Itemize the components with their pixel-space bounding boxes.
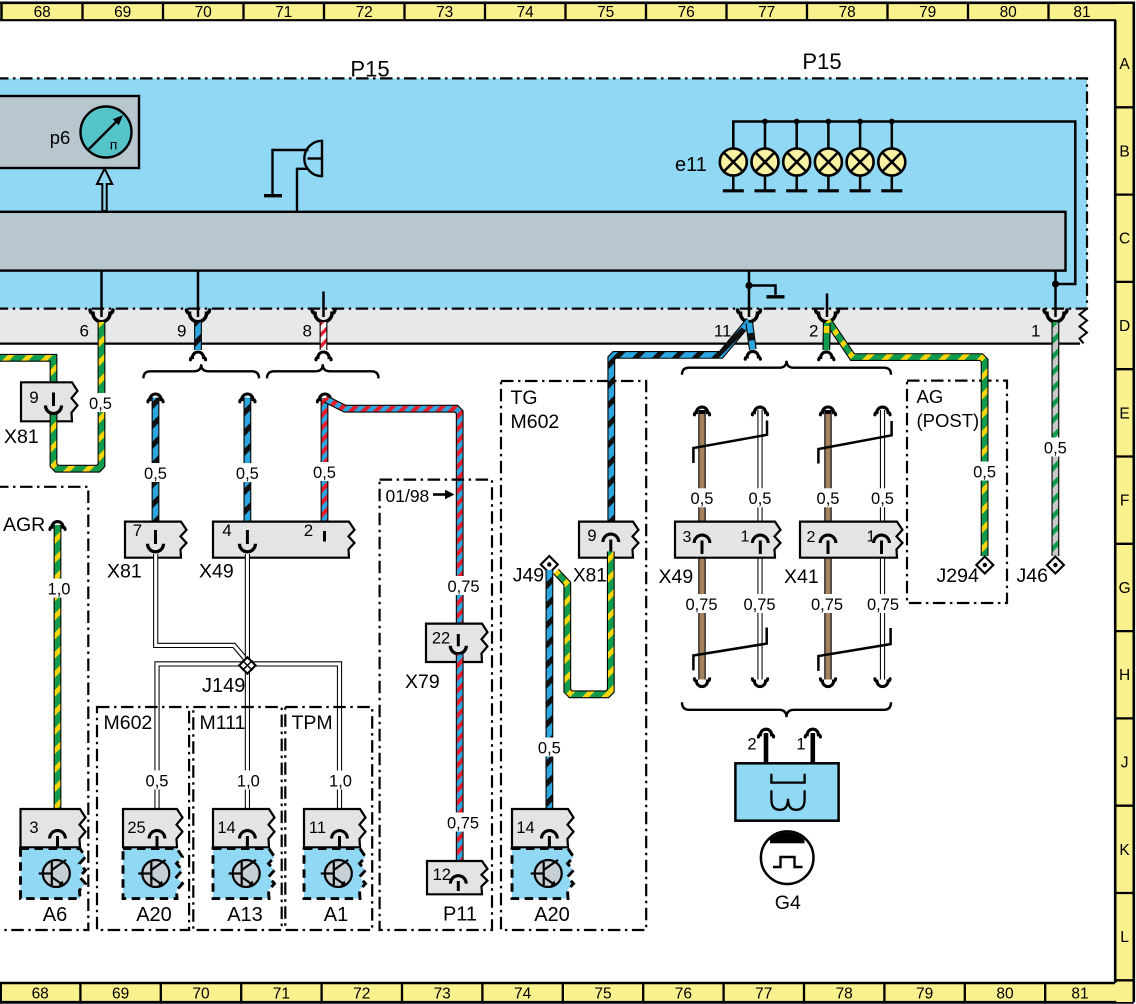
svg-text:AGR: AGR [3, 514, 45, 536]
connector X81 box (pin 7) [125, 522, 187, 558]
wire green/yellow from left edge into X81 pin 9 [0, 358, 54, 393]
svg-text:J46: J46 [1017, 565, 1048, 587]
control unit A1 blue box with transistor [304, 849, 366, 899]
svg-text:0,5: 0,5 [236, 465, 259, 483]
svg-text:L: L [1120, 929, 1129, 946]
svg-text:A13: A13 [227, 904, 263, 926]
svg-text:B: B [1119, 143, 1129, 160]
switch contact upper X41 [818, 421, 891, 464]
wire end cup at top x=882.5 [875, 407, 890, 415]
engine region M602 dash-dot box [97, 707, 189, 930]
svg-text:J149: J149 [202, 675, 245, 697]
stub above pin 8 [322, 292, 325, 318]
svg-text:A1: A1 [324, 904, 348, 926]
svg-text:72: 72 [356, 4, 373, 21]
svg-text:1: 1 [867, 529, 876, 546]
strip connector pin 6 [90, 310, 113, 322]
wire bus to pin 6 [100, 271, 103, 317]
svg-text:A20: A20 [136, 904, 172, 926]
switch contact upper X49 [693, 421, 767, 464]
svg-text:73: 73 [434, 986, 451, 1003]
svg-text:72: 72 [353, 986, 370, 1003]
right ruler band [1115, 2, 1134, 1002]
wire J149 to A20 pin 25 [157, 664, 245, 829]
engine region M111 dash-dot box [193, 707, 281, 930]
svg-text:74: 74 [514, 986, 532, 1003]
gauge module p6 box [0, 96, 139, 168]
control unit A20 connector box pin 14 [512, 809, 574, 847]
svg-text:1: 1 [796, 736, 805, 754]
svg-text:3: 3 [29, 819, 38, 837]
wire J149 to A13 pin 14 [245, 668, 250, 829]
switch contact lower X49 [693, 628, 766, 671]
wire green/yellow X81-9 loop up to strip pin 6 [54, 322, 102, 469]
svg-text:9: 9 [177, 322, 186, 341]
junction sleeve J49 [541, 556, 558, 573]
svg-text:80: 80 [1000, 4, 1018, 21]
svg-text:69: 69 [114, 4, 131, 21]
svg-text:0,5: 0,5 [313, 464, 336, 482]
svg-text:74: 74 [517, 4, 535, 21]
wire blue/black pin 11 to X81 pin 9 (TG) [611, 321, 749, 532]
strip connector pin 8 [312, 310, 335, 322]
wire brown X49 pin 3 column [698, 410, 705, 534]
svg-text:25: 25 [127, 819, 145, 837]
wire size 0,5 [88, 393, 114, 413]
svg-text:D: D [1119, 318, 1130, 335]
svg-text:0,5: 0,5 [871, 490, 894, 508]
svg-text:1: 1 [741, 529, 750, 546]
svg-text:A20: A20 [534, 904, 570, 926]
control unit A6 connector box pin 3 [21, 809, 86, 847]
pin 4 [246, 530, 249, 544]
ground symbol at pin 11 tap [749, 286, 776, 295]
svg-text:(POST): (POST) [917, 410, 980, 431]
svg-text:0,5: 0,5 [89, 395, 112, 413]
svg-text:78: 78 [836, 986, 853, 1003]
svg-text:76: 76 [678, 4, 695, 21]
svg-text:A: A [1119, 56, 1130, 73]
lamp e11.1 [720, 122, 747, 191]
region TG M602 dash-dot box [501, 381, 646, 930]
pin 2 of X49 [323, 531, 326, 542]
pin 7 [154, 530, 157, 544]
wire brown X41 pin 2 column [824, 410, 831, 534]
wire end cup at bottom x=828 [820, 679, 835, 687]
svg-text:4: 4 [222, 521, 231, 540]
svg-text:14: 14 [516, 819, 534, 837]
svg-text:0,75: 0,75 [447, 814, 479, 832]
svg-text:70: 70 [195, 4, 213, 21]
svg-text:TG: TG [511, 387, 538, 409]
lamp e11.6 [878, 122, 905, 191]
svg-text:0,5: 0,5 [817, 490, 840, 508]
svg-text:69: 69 [112, 986, 129, 1003]
solenoid valve pins 2,1 [758, 729, 773, 737]
svg-text:J294: J294 [937, 565, 979, 587]
svg-text:79: 79 [919, 4, 936, 21]
control unit A6 blue box with transistor [21, 849, 86, 899]
svg-text:77: 77 [755, 986, 772, 1003]
svg-text:0,75: 0,75 [685, 596, 717, 614]
svg-text:68: 68 [32, 986, 49, 1003]
top ruler band [0, 2, 1135, 21]
wire end cup at bottom x=882.5 [875, 679, 890, 687]
svg-text:6: 6 [80, 322, 89, 341]
transducer P11 box pin 12 [427, 861, 488, 894]
wire white X41 pin 1 column [880, 410, 885, 534]
control unit A20 connector box pin 25 [123, 809, 183, 847]
svg-text:0,75: 0,75 [811, 596, 843, 614]
wire green/yellow stub end below pin 2 [822, 323, 830, 350]
svg-text:P11: P11 [443, 904, 477, 926]
svg-text:0,5: 0,5 [973, 463, 996, 481]
control region AGR dash-dot box [0, 487, 88, 930]
svg-text:71: 71 [275, 4, 292, 21]
control unit A20 blue box with transistor [512, 849, 574, 899]
svg-text:M111: M111 [200, 712, 246, 734]
stub above pin 2 [826, 294, 829, 318]
svg-text:3: 3 [683, 529, 692, 546]
control unit A1 connector box pin 11 [304, 809, 366, 847]
svg-text:0,5: 0,5 [144, 465, 167, 483]
control unit A20 blue box with transistor [123, 849, 183, 899]
svg-text:14: 14 [217, 819, 235, 837]
svg-text:H: H [1119, 667, 1130, 684]
svg-text:8: 8 [303, 322, 312, 341]
connector X81 (left) box [21, 382, 78, 421]
junction sleeve J46 [1047, 557, 1064, 574]
svg-text:0,5: 0,5 [691, 490, 714, 508]
svg-text:77: 77 [758, 4, 775, 21]
svg-text:0,5: 0,5 [146, 772, 169, 790]
junction sleeve J294 [976, 557, 993, 574]
internal bus bar of P15 [0, 212, 1066, 271]
svg-text:TPM: TPM [292, 712, 333, 734]
svg-text:7: 7 [133, 521, 142, 540]
outline arrow from bus to p6 [97, 169, 112, 212]
control unit A13 blue box with transistor [213, 849, 275, 899]
brace under pin 8 [267, 364, 379, 378]
svg-text:81: 81 [1071, 986, 1088, 1003]
svg-text:78: 78 [839, 4, 856, 21]
svg-text:11: 11 [714, 322, 732, 341]
connector X49 box (pins 3,1) [675, 522, 781, 558]
wire red/white stub below pin 8 [320, 322, 328, 350]
svg-text:0,75: 0,75 [867, 596, 899, 614]
svg-text:68: 68 [34, 4, 51, 21]
wire yellow/green X81-9 loop to J49 [556, 552, 611, 695]
junction sleeve J149 [239, 657, 255, 673]
connector X81 pin 9 cup [52, 393, 55, 407]
svg-text:X79: X79 [405, 671, 440, 693]
svg-text:K: K [1119, 842, 1130, 859]
wire end cup at top x=702 [694, 407, 709, 415]
svg-text:2: 2 [807, 529, 816, 546]
brace above X49/X41 group [682, 361, 891, 375]
strip connector pin 2 [816, 310, 839, 322]
wire end cup at top x=828 [820, 407, 835, 415]
svg-text:79: 79 [916, 986, 933, 1003]
lamp e11.5 [847, 122, 874, 191]
horn / speaker symbol inside P15 [264, 141, 322, 212]
wire green/yellow pin 2 to J294 [828, 321, 985, 557]
svg-text:P15: P15 [350, 57, 389, 82]
solenoid valve blue box [735, 763, 838, 820]
svg-text:J49: J49 [513, 565, 544, 587]
wire bus to pin 1 with lamp feeder junction [1054, 271, 1057, 317]
region TPM dash-dot box [285, 707, 372, 930]
svg-text:A6: A6 [43, 904, 67, 926]
bottom ruler band [0, 982, 1134, 1003]
wire from X81-7 to junction J149 [156, 554, 245, 658]
wire bus to pin 9 [197, 271, 200, 317]
svg-text:E: E [1119, 405, 1129, 422]
svg-text:X81: X81 [107, 561, 142, 583]
svg-text:M602: M602 [511, 411, 560, 433]
svg-text:X81: X81 [4, 426, 39, 448]
svg-text:2: 2 [747, 736, 756, 754]
svg-text:0,5: 0,5 [749, 490, 772, 508]
lamp e11.2 [752, 122, 779, 191]
svg-text:0,75: 0,75 [743, 596, 775, 614]
svg-text:01/98: 01/98 [386, 486, 430, 506]
svg-text:0,5: 0,5 [1044, 439, 1067, 457]
svg-text:2: 2 [304, 521, 313, 540]
svg-text:22: 22 [432, 630, 450, 648]
lamp group e11 feeder wire [733, 122, 1075, 285]
wire blue/black J49 to A20 pin 14 [546, 570, 554, 829]
wire white X49 pin 1 column [757, 410, 762, 534]
svg-text:12: 12 [433, 866, 451, 884]
svg-text:AG: AG [917, 386, 944, 407]
label 01/98 with arrow [386, 486, 455, 506]
wire end cup at bottom x=702 [694, 679, 709, 687]
connector X79 box pin 22 [426, 624, 488, 662]
svg-text:J: J [1121, 755, 1129, 772]
wire end cup at top x=760 [752, 407, 767, 415]
svg-text:76: 76 [675, 986, 692, 1003]
svg-text:1,0: 1,0 [329, 772, 352, 790]
wire blue/black to X49 pin 4 [240, 394, 255, 402]
wire bus to pin 11 with ground tap [748, 271, 751, 317]
svg-text:1,0: 1,0 [48, 580, 71, 598]
svg-text:G: G [1119, 580, 1131, 597]
svg-text:73: 73 [436, 4, 453, 21]
wire from X49-4 to junction J149 [245, 554, 250, 660]
connector X49 box (pins 4,2) [213, 522, 355, 558]
sensor G4 [761, 831, 814, 884]
svg-text:X41: X41 [784, 566, 819, 588]
lamp e11.3 [783, 122, 810, 191]
option region 01/98 dash-dot box [380, 480, 492, 930]
svg-text:81: 81 [1073, 4, 1090, 21]
svg-text:п: п [110, 137, 118, 153]
svg-text:G4: G4 [775, 892, 801, 914]
svg-text:M602: M602 [104, 712, 153, 734]
lamp e11.4 [815, 122, 842, 191]
solenoid coil symbol [771, 774, 804, 783]
wire gray/green pin 1 to J46 [1052, 322, 1060, 556]
svg-text:70: 70 [192, 986, 210, 1003]
wire green/yellow AGR to A6 pin 3 [50, 522, 65, 530]
svg-text:1: 1 [1031, 322, 1040, 341]
connector X81 box (TG) pin 9 [579, 522, 639, 558]
svg-text:X49: X49 [199, 561, 234, 583]
svg-text:C: C [1119, 231, 1130, 248]
svg-text:9: 9 [587, 527, 596, 545]
svg-text:1,0: 1,0 [237, 772, 260, 790]
brace under pin 9 [143, 364, 259, 378]
torn zig-zag edge of D strip [1080, 309, 1088, 344]
wire blue/black stub end below pin 11 [749, 323, 753, 350]
svg-text:0,75: 0,75 [447, 578, 479, 596]
wire end cup at bottom x=760 [752, 679, 767, 687]
svg-text:p6: p6 [50, 127, 71, 148]
svg-text:e11: e11 [675, 154, 707, 176]
switch contact lower X41 [818, 628, 890, 671]
svg-text:P15: P15 [802, 49, 841, 74]
wire blue/black to X81 pin 7 [148, 394, 163, 402]
region AG (POST) dash-dot box [907, 381, 1007, 603]
D strip (connector row) gray band [0, 309, 1087, 345]
P15 region dash-dot border [0, 78, 1087, 308]
svg-text:80: 80 [996, 986, 1014, 1003]
component region P15 (instrument cluster) blue background [0, 78, 1087, 308]
svg-text:75: 75 [597, 4, 614, 21]
svg-text:9: 9 [29, 388, 38, 407]
svg-text:71: 71 [273, 986, 290, 1003]
wire red/blue from brace to X49 pin 2 and X79 [317, 394, 332, 402]
connector X41 box (pins 2,1) [800, 522, 903, 558]
brace below X49/X41 group [682, 702, 891, 717]
gauge p6 dial [81, 107, 132, 158]
svg-text:11: 11 [309, 819, 326, 837]
strip connector pin 11 [738, 310, 761, 322]
strip connector pin 9 [187, 310, 210, 322]
svg-text:0,5: 0,5 [538, 739, 561, 757]
svg-text:F: F [1120, 493, 1129, 510]
wire red/blue X79 to P11 pin 12 [456, 655, 464, 873]
control unit A13 connector box pin 14 [213, 809, 275, 847]
svg-text:X81: X81 [573, 566, 607, 587]
svg-text:X49: X49 [659, 566, 694, 588]
wire J149 to A1 pin 11 [250, 664, 340, 829]
strip connector pin 1 [1044, 310, 1067, 322]
svg-text:2: 2 [809, 322, 818, 341]
wire blue/black stub below pin 9 [194, 322, 202, 350]
svg-text:75: 75 [594, 986, 611, 1003]
